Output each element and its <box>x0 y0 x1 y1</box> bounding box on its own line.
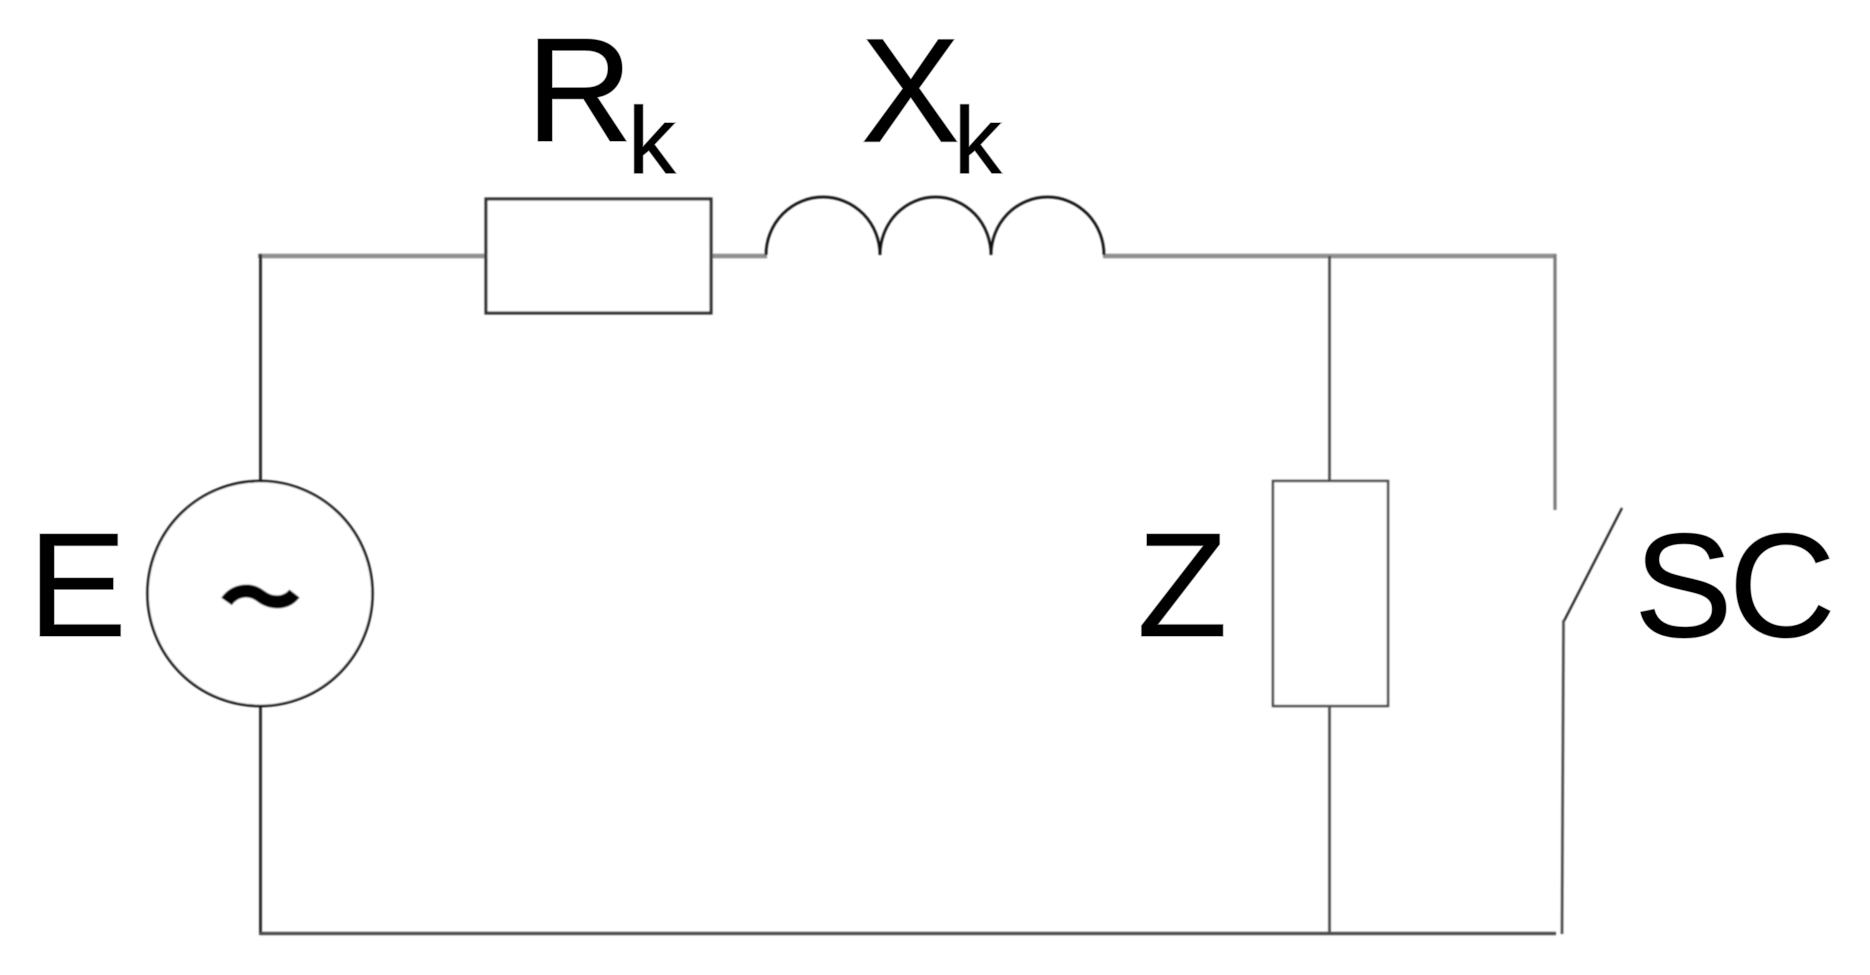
resistor Rk box <box>486 199 711 313</box>
inductor Xk coils <box>766 197 1104 255</box>
AC source tilde symbol <box>227 591 295 602</box>
svg-text:R: R <box>526 8 633 173</box>
switch SC blade (open) <box>1564 508 1622 621</box>
svg-text:k: k <box>954 88 1002 194</box>
svg-text:E: E <box>28 503 127 668</box>
wire top-right horizontal (inductor to switch corner) <box>1103 254 1556 259</box>
wire right vertical (corner to switch top contact) <box>1553 254 1556 510</box>
svg-text:SC: SC <box>1634 504 1832 669</box>
svg-text:Z: Z <box>1137 503 1227 668</box>
svg-text:k: k <box>628 88 676 194</box>
wire bottom horizontal <box>259 932 1556 935</box>
svg-text:X: X <box>861 9 960 174</box>
wire resistor to inductor <box>710 254 767 259</box>
wire left vertical bottom (source to bottom wire) <box>259 706 262 934</box>
wire top-left horizontal (source to resistor) <box>258 254 487 259</box>
wire Z branch top (junction to Z box) <box>1328 256 1331 483</box>
load Z box <box>1273 481 1388 706</box>
wire switch bottom (blade pivot to bottom wire) <box>1562 620 1564 934</box>
wire Z branch bottom (Z box to bottom wire) <box>1328 705 1331 934</box>
AC source E circle <box>148 481 373 706</box>
wire left vertical top (corner to source) <box>259 254 262 482</box>
